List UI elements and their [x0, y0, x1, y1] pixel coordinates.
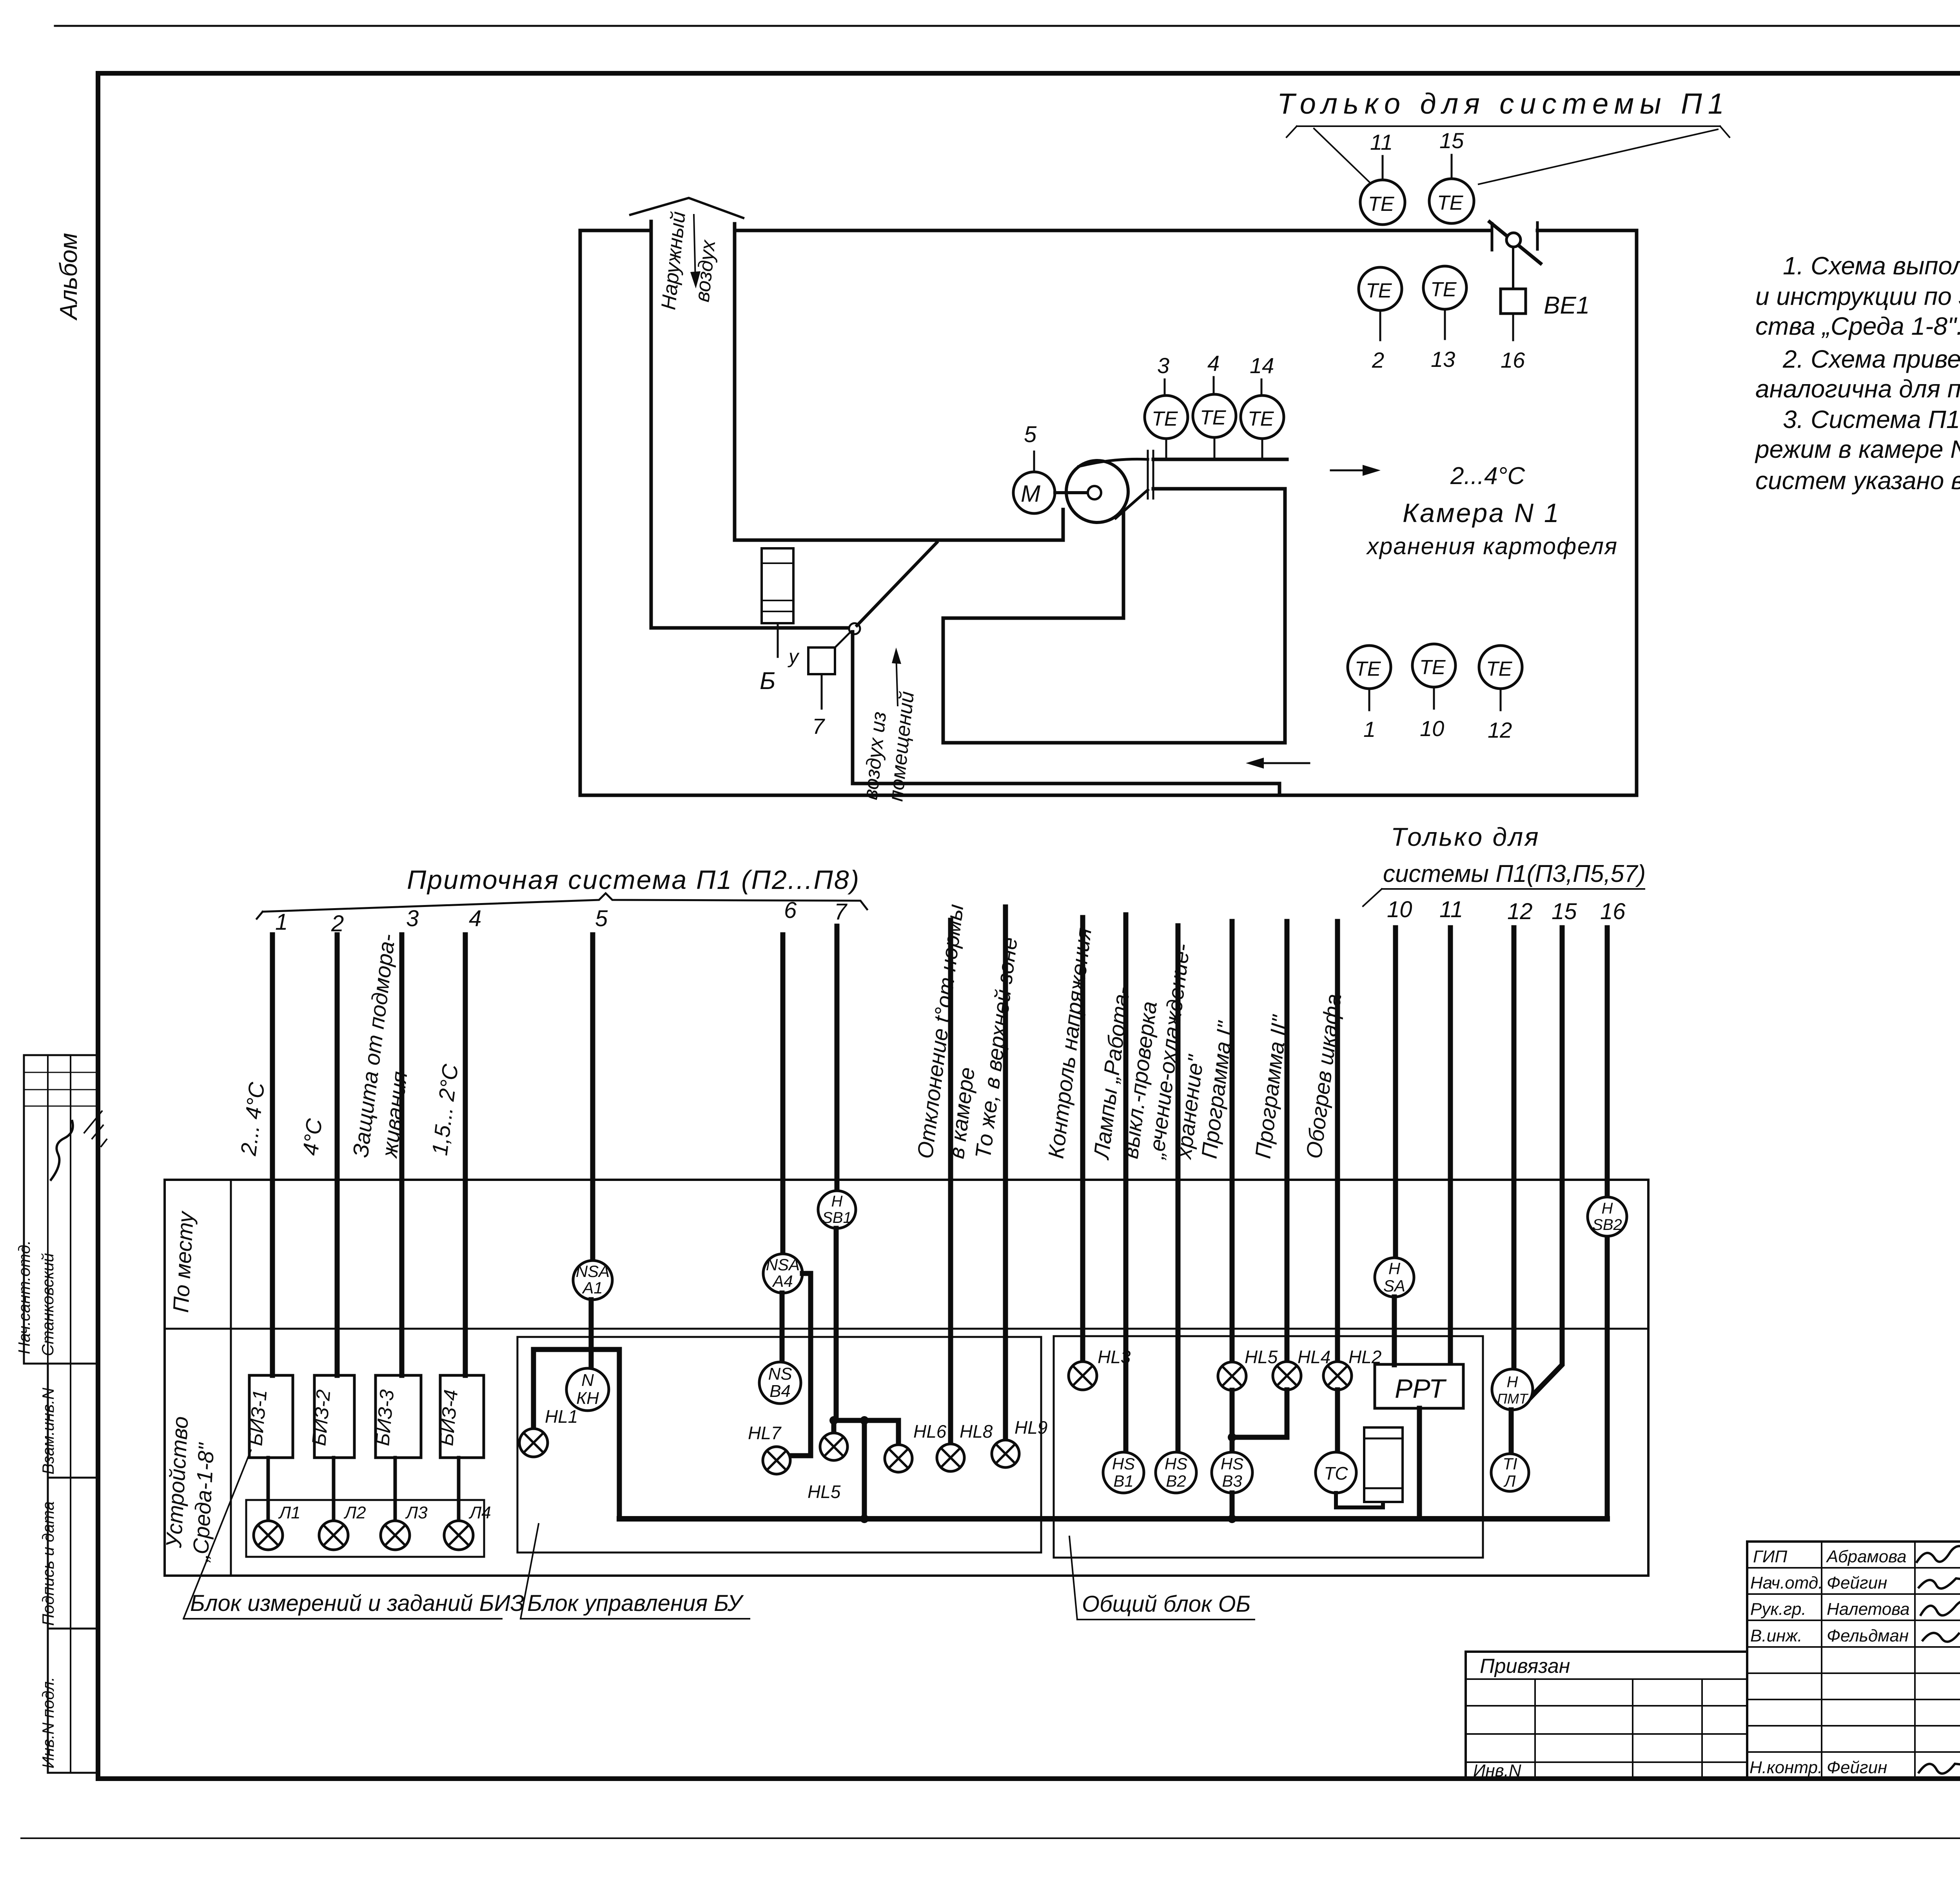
svg-text:Рук.гр.: Рук.гр.	[1750, 1600, 1806, 1619]
wire NSA A4 right riser to HL7	[790, 1273, 811, 1456]
label Только для системы П1(П3,П5,57)	[1383, 822, 1646, 887]
plenum bottom wall	[735, 539, 1063, 542]
sheet bottom edge line	[21, 1837, 1960, 1839]
svg-text:12: 12	[1488, 718, 1512, 742]
stamp box Подпись и дата	[48, 1478, 98, 1629]
lamp HL4	[1273, 1362, 1301, 1390]
svg-text:1: 1	[275, 909, 288, 935]
svg-text:А4: А4	[771, 1272, 793, 1290]
wire 9	[1003, 907, 1008, 1440]
svg-text:16: 16	[1501, 348, 1525, 372]
TE sensor 14	[1261, 379, 1262, 459]
svg-text:ТЕ: ТЕ	[1200, 406, 1227, 429]
return flow arrow (up)	[896, 654, 898, 706]
svg-text:у: у	[788, 646, 800, 667]
svg-text:4: 4	[469, 906, 481, 931]
lamp HL5b	[1218, 1362, 1246, 1390]
svg-text:ГИП: ГИП	[1753, 1547, 1787, 1566]
duct outline top wall segments	[580, 229, 1637, 232]
svg-text:14: 14	[1250, 353, 1274, 378]
wire HL5 stem	[831, 1420, 837, 1433]
intake chimney right wall	[733, 224, 737, 540]
wire 19	[1529, 928, 1562, 1399]
svg-text:HL3: HL3	[1098, 1347, 1131, 1367]
svg-text:Инв.N: Инв.N	[1473, 1761, 1521, 1780]
svg-text:10: 10	[1420, 716, 1444, 741]
label 2...4C	[1450, 462, 1525, 490]
svg-text:Только для: Только для	[1391, 822, 1540, 851]
bottom bus wire	[619, 1516, 1607, 1522]
svg-text:РРТ: РРТ	[1395, 1374, 1447, 1404]
junction dots	[829, 1416, 838, 1425]
fan outlet flange	[1148, 451, 1153, 499]
TE sensor 12	[1479, 646, 1522, 689]
rotated signal labels group A	[236, 932, 463, 1160]
svg-text:М: М	[1021, 481, 1040, 507]
svg-text:Налетова: Налетова	[1827, 1600, 1910, 1619]
svg-text:Абрамова: Абрамова	[1826, 1547, 1907, 1566]
label воздух из помещений (rotated)	[859, 690, 918, 802]
svg-text:7: 7	[834, 899, 848, 925]
lamp HL8	[937, 1444, 964, 1471]
svg-text:В2: В2	[1166, 1472, 1186, 1490]
block БИЗ-3	[376, 1375, 421, 1458]
svg-text:3. Система П1 поддерживает тем: 3. Система П1 поддерживает температурный	[1783, 405, 1960, 433]
svg-text:Н.контр.: Н.контр.	[1749, 1758, 1822, 1777]
wire 13	[1230, 921, 1235, 1362]
svg-text:HL7: HL7	[748, 1423, 782, 1443]
svg-text:Фельдман: Фельдман	[1827, 1626, 1909, 1645]
svg-text:7: 7	[812, 714, 825, 738]
wire 8	[948, 920, 953, 1444]
damper valve on top wall	[1492, 223, 1537, 250]
wire 12	[1176, 926, 1181, 1453]
sensor BE1	[1512, 247, 1514, 289]
svg-text:Станковский: Станковский	[38, 1253, 57, 1356]
svg-text:3: 3	[1157, 353, 1169, 378]
svg-text:систем указано в таблице приме: систем указано в таблице применяемости л…	[1755, 466, 1960, 495]
svg-text:10: 10	[1387, 897, 1412, 922]
svg-text:HL1: HL1	[545, 1406, 578, 1427]
binding table Привязан	[1466, 1652, 1747, 1779]
damper pivot node	[849, 623, 860, 634]
lamp HL3	[1069, 1362, 1097, 1390]
svg-text:Нач.сант.отд.: Нач.сант.отд.	[15, 1240, 33, 1354]
supply flow arrow	[1331, 470, 1372, 472]
instrument HS B3	[1212, 1452, 1252, 1493]
leader to БУ box	[521, 1524, 539, 1619]
svg-text:11: 11	[1439, 897, 1463, 922]
brace under title	[257, 893, 867, 919]
sheet top edge line	[55, 25, 1960, 27]
wire 4	[463, 935, 468, 1375]
junction bar	[834, 1418, 898, 1423]
svg-text:ВЕ1: ВЕ1	[1544, 292, 1590, 319]
duct outline left wall	[579, 230, 582, 795]
svg-text:1. Схема выполнена на основани: 1. Схема выполнена на основании техничес…	[1783, 252, 1960, 280]
lamp Л1	[254, 1521, 283, 1550]
svg-text:В.инж.: В.инж.	[1750, 1626, 1802, 1645]
svg-text:ТЕ: ТЕ	[1430, 278, 1457, 301]
TE sensor 3	[1165, 379, 1166, 459]
svg-text:HS: HS	[1221, 1455, 1243, 1473]
svg-text:SA: SA	[1383, 1277, 1405, 1295]
wire PPT to bus	[1417, 1408, 1422, 1519]
svg-text:6: 6	[784, 898, 797, 923]
wire 16	[1393, 928, 1398, 1258]
TE sensor 10	[1412, 644, 1455, 687]
svg-text:КН: КН	[576, 1389, 599, 1408]
svg-text:HL6: HL6	[913, 1421, 947, 1442]
svg-text:режим в камере N 1. Для камер: режим в камере N 1. Для камер 2...4 соот…	[1755, 435, 1960, 463]
label Наружный воздух (rotated)	[657, 210, 720, 311]
svg-text:и инструкции по эксплуатации З: и инструкции по эксплуатации ЗУЗ.222.001…	[1755, 282, 1960, 310]
lamp box	[246, 1500, 484, 1557]
svg-text:ПМТ: ПМТ	[1497, 1391, 1529, 1407]
instrument NSA A4	[763, 1254, 802, 1293]
wire HL6 stem	[896, 1420, 901, 1445]
svg-text:Н: Н	[1388, 1259, 1401, 1278]
instrument HS B1	[1103, 1452, 1144, 1493]
wire HS B3 to bus	[1230, 1493, 1235, 1519]
wire HL1 top run	[534, 1349, 619, 1519]
lamp HL6	[885, 1445, 912, 1472]
svg-text:15: 15	[1439, 128, 1464, 153]
inner bottom wall	[853, 784, 1279, 795]
wire 7 lower segment	[834, 1228, 839, 1420]
lamp Л4	[444, 1521, 473, 1550]
svg-text:NS: NS	[768, 1364, 792, 1384]
stamp signature squiggle	[51, 1121, 73, 1180]
svg-text:Привязан: Привязан	[1480, 1655, 1570, 1678]
common block ОБ box	[1054, 1336, 1483, 1558]
motor shaft	[1055, 491, 1088, 494]
lamp stems	[268, 1458, 459, 1521]
stamp box Нач.сант.отд.	[24, 1055, 98, 1364]
svg-text:Л3: Л3	[405, 1503, 428, 1522]
contactor	[1364, 1427, 1403, 1502]
leader to БИЗ-1	[183, 1450, 251, 1619]
svg-text:аналогична для приточных си: аналогична для приточных систем П2...П4.	[1755, 375, 1960, 403]
svg-text:ТЕ: ТЕ	[1486, 658, 1513, 680]
svg-text:ТЕ: ТЕ	[1419, 656, 1446, 679]
node numbers 10-16	[1387, 897, 1626, 924]
svg-text:Л1: Л1	[278, 1503, 301, 1522]
panel row separator	[165, 1328, 1648, 1330]
svg-text:ТЕ: ТЕ	[1248, 408, 1274, 430]
TE sensor 1	[1348, 646, 1391, 689]
relay PPT box	[1375, 1364, 1463, 1408]
svg-text:Л4: Л4	[468, 1503, 491, 1522]
motor M5 stem and label	[1033, 452, 1035, 472]
svg-text:ства „Среда 1-8".: ства „Среда 1-8".	[1755, 312, 1960, 340]
svg-text:ТЕ: ТЕ	[1368, 193, 1395, 216]
wire 5	[590, 935, 595, 1261]
svg-text:В3: В3	[1222, 1472, 1242, 1490]
svg-text:Общий блок ОБ: Общий блок ОБ	[1082, 1591, 1250, 1617]
motor M	[1013, 472, 1055, 513]
TE sensor 2	[1359, 267, 1402, 310]
svg-text:А1: А1	[581, 1279, 603, 1297]
instrument N KH	[566, 1368, 609, 1411]
svg-text:хранения картофеля: хранения картофеля	[1366, 533, 1618, 559]
label Общий блок ОБ	[1082, 1591, 1250, 1617]
label Приточная система П1 (П2...П8)	[407, 865, 860, 895]
TE sensor 4	[1214, 377, 1214, 459]
svg-text:Л: Л	[1503, 1472, 1516, 1490]
TE sensor 13	[1423, 266, 1466, 309]
label Только для системы П1 (top)	[1277, 87, 1730, 120]
wire HL5b to HS B3	[1230, 1390, 1235, 1451]
wire H ПМТ to TI Л	[1509, 1410, 1514, 1453]
instrument H SB1	[818, 1191, 856, 1228]
title block signature table	[1747, 1542, 1960, 1779]
block БИЗ-4	[440, 1375, 484, 1458]
wire NSA A1 to N KH	[589, 1300, 594, 1368]
svg-text:16: 16	[1600, 899, 1626, 924]
instrument NSA A1	[573, 1261, 612, 1300]
wire 18	[1512, 928, 1517, 1369]
svg-text:В1: В1	[1113, 1472, 1133, 1490]
wall to damper	[651, 626, 849, 630]
label хранения картофеля	[1366, 533, 1618, 559]
svg-text:HS: HS	[1112, 1455, 1135, 1473]
svg-text:NSA: NSA	[766, 1255, 800, 1274]
wire 15	[1335, 921, 1340, 1362]
svg-text:5: 5	[595, 906, 608, 931]
svg-text:Б: Б	[760, 667, 775, 695]
svg-text:ТЕ: ТЕ	[1355, 658, 1381, 680]
svg-text:2...4°С: 2...4°С	[1450, 462, 1525, 490]
svg-text:4°С: 4°С	[298, 1117, 327, 1157]
svg-text:Приточная система П1 (П2...П: Приточная система П1 (П2...П8)	[407, 865, 860, 895]
block БИЗ-2	[314, 1375, 354, 1458]
svg-text:Н: Н	[1602, 1200, 1613, 1217]
svg-text:HL9: HL9	[1014, 1417, 1047, 1438]
instrument H SB2	[1588, 1197, 1627, 1236]
wire TC to contactor	[1336, 1493, 1383, 1507]
instrument HS B2	[1156, 1452, 1196, 1493]
wire 2	[335, 935, 340, 1375]
lamp HL1	[519, 1429, 548, 1457]
duct outline right wall	[1635, 230, 1639, 795]
svg-text:Блок управления БУ: Блок управления БУ	[527, 1591, 744, 1616]
svg-text:системы П1(П3,П5,57): системы П1(П3,П5,57)	[1383, 860, 1646, 887]
intake flow arrow (down)	[694, 215, 695, 281]
stamp box Инв.N подл.	[48, 1629, 98, 1773]
svg-text:5: 5	[1024, 422, 1037, 447]
rotated signal labels group B	[912, 903, 1346, 1161]
svg-text:Камера N 1: Камера N 1	[1403, 498, 1561, 528]
instrument TC	[1316, 1452, 1356, 1493]
svg-text:В4: В4	[769, 1382, 791, 1401]
bracket diagonals to TE11 TE15	[1314, 129, 1371, 183]
svg-text:Н: Н	[831, 1193, 843, 1210]
svg-text:SB1: SB1	[822, 1209, 852, 1226]
instrument H ПМТ	[1492, 1369, 1533, 1410]
svg-text:HL5: HL5	[808, 1482, 841, 1502]
svg-text:Альбом: Альбом	[55, 233, 82, 321]
node numbers 1-7	[275, 898, 848, 936]
svg-text:ТЕ: ТЕ	[1437, 192, 1464, 214]
svg-text:ТЕ: ТЕ	[1152, 408, 1178, 430]
svg-text:N: N	[581, 1371, 594, 1390]
label Устройство Среда-1-8 (rotated)	[161, 1416, 219, 1563]
wire 10	[1080, 918, 1085, 1362]
svg-text:ТС: ТС	[1324, 1463, 1348, 1484]
leader to ОБ box	[1069, 1536, 1077, 1620]
TE sensor 15	[1451, 155, 1453, 179]
wire 3	[399, 935, 405, 1375]
wire HL2 to TC	[1335, 1390, 1340, 1452]
return channel left wall	[851, 632, 855, 784]
fan hub	[1088, 486, 1101, 499]
supply duct walls	[1153, 459, 1287, 489]
svg-text:Блок измерений и заданий БИЗ: Блок измерений и заданий БИЗ	[190, 1591, 524, 1616]
wire 14	[1285, 921, 1290, 1362]
instrument NS B4	[759, 1362, 801, 1404]
svg-text:3: 3	[406, 906, 419, 931]
panel label column divider	[230, 1180, 232, 1576]
svg-text:1: 1	[1363, 717, 1376, 742]
svg-text:4: 4	[1207, 351, 1220, 375]
wire HL4 to junction	[1232, 1390, 1287, 1437]
top bracket	[1287, 126, 1730, 137]
svg-text:15: 15	[1552, 899, 1577, 924]
panel outer box	[165, 1180, 1648, 1576]
fan wheel	[1066, 461, 1128, 522]
svg-text:NSA: NSA	[576, 1262, 610, 1280]
signatures squiggles	[1917, 1542, 1960, 1562]
svg-text:HL4: HL4	[1298, 1347, 1330, 1367]
svg-text:Взам.инв.N: Взам.инв.N	[39, 1387, 57, 1475]
notes text block	[1755, 252, 1960, 495]
label Альбом (rotated, left margin)	[55, 233, 82, 321]
intake arrow head	[630, 198, 743, 218]
wire 11	[1123, 915, 1129, 1453]
duct outline bottom wall	[580, 794, 1637, 797]
svg-text:Нач.отд.: Нач.отд.	[1750, 1573, 1823, 1592]
stamp box Взам.инв.N	[48, 1364, 98, 1478]
block БИЗ-1	[249, 1375, 293, 1458]
svg-text:Инв.N подл.: Инв.N подл.	[39, 1677, 57, 1768]
wire H SA to PPT	[1392, 1297, 1397, 1365]
lamp HL9	[992, 1440, 1019, 1467]
label Блок измерений и заданий БИЗ	[190, 1591, 524, 1616]
label По месту (rotated)	[168, 1210, 198, 1313]
intake chimney left wall	[650, 221, 653, 628]
lamp HL5	[820, 1433, 848, 1460]
wire 17	[1448, 928, 1453, 1365]
svg-text:Л2: Л2	[343, 1503, 366, 1522]
svg-text:11: 11	[1370, 130, 1393, 154]
duct drop wall	[1122, 510, 1125, 618]
svg-text:2. Схема приведена для приточн: 2. Схема приведена для приточной системы…	[1782, 345, 1960, 373]
wire junction riser to bus	[862, 1420, 867, 1519]
filter Б	[762, 548, 793, 623]
lamp Л3	[381, 1521, 410, 1550]
svg-text:Н: Н	[1507, 1373, 1518, 1391]
lamp HL7	[763, 1447, 790, 1474]
fan volute	[1079, 459, 1148, 466]
svg-text:12: 12	[1507, 899, 1533, 924]
fan pedestal	[1062, 510, 1065, 540]
instrument TI Л	[1491, 1454, 1529, 1491]
lamp HL2	[1323, 1362, 1352, 1390]
svg-text:HL5: HL5	[1245, 1347, 1278, 1367]
return flow arrow left	[1254, 762, 1309, 764]
control block БУ box	[517, 1337, 1041, 1553]
damper blade	[857, 542, 937, 626]
svg-text:Только для системы П1: Только для системы П1	[1277, 87, 1730, 120]
svg-text:ТЕ: ТЕ	[1366, 279, 1392, 302]
svg-text:Фейгин: Фейгин	[1827, 1758, 1887, 1777]
actuator У	[808, 647, 835, 674]
svg-text:2: 2	[1372, 348, 1384, 372]
svg-text:SB2: SB2	[1592, 1216, 1622, 1233]
lamp Л2	[319, 1521, 348, 1550]
wire 1	[270, 935, 275, 1375]
wire 7	[835, 926, 840, 1191]
TE sensor 11	[1382, 156, 1384, 180]
svg-text:Подпись и дата: Подпись и дата	[39, 1501, 57, 1626]
svg-text:ТI: ТI	[1503, 1455, 1517, 1473]
wire 20	[1605, 928, 1610, 1519]
label Блок управления БУ	[527, 1591, 744, 1616]
svg-text:Фейгин: Фейгин	[1827, 1573, 1887, 1592]
label Камера N1	[1403, 498, 1561, 528]
instrument H SA	[1375, 1258, 1414, 1297]
distribution box	[943, 489, 1285, 743]
svg-text:HL8: HL8	[960, 1421, 993, 1442]
wire NSA A4 to NS B4	[780, 1293, 785, 1362]
wire 6	[780, 935, 786, 1254]
svg-text:13: 13	[1431, 347, 1455, 372]
svg-text:HS: HS	[1165, 1455, 1187, 1473]
